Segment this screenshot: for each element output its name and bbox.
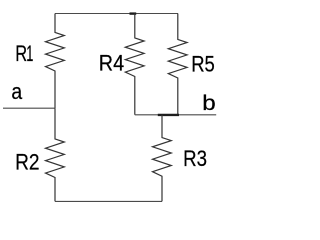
node b wire xyxy=(135,114,216,116)
svg-text:a: a xyxy=(11,80,22,104)
svg-text:R2: R2 xyxy=(15,150,39,175)
junction top at R4 branch xyxy=(130,12,137,14)
wire top rail xyxy=(55,13,178,15)
wire bottom rail xyxy=(55,200,162,202)
resistor R2 xyxy=(46,108,65,201)
svg-text:R4: R4 xyxy=(99,52,125,76)
resistor R4 xyxy=(125,14,144,115)
svg-text:R5: R5 xyxy=(191,53,215,77)
node a wire xyxy=(3,107,55,109)
svg-text:1: 1 xyxy=(26,41,33,65)
svg-text:R: R xyxy=(15,42,27,67)
resistor R5 xyxy=(168,14,187,115)
svg-text:b: b xyxy=(202,91,215,114)
svg-text:R3: R3 xyxy=(183,148,207,172)
resistor R1 xyxy=(46,14,65,109)
resistor R3 xyxy=(153,115,172,202)
junction node b at R3 branch xyxy=(158,114,179,116)
